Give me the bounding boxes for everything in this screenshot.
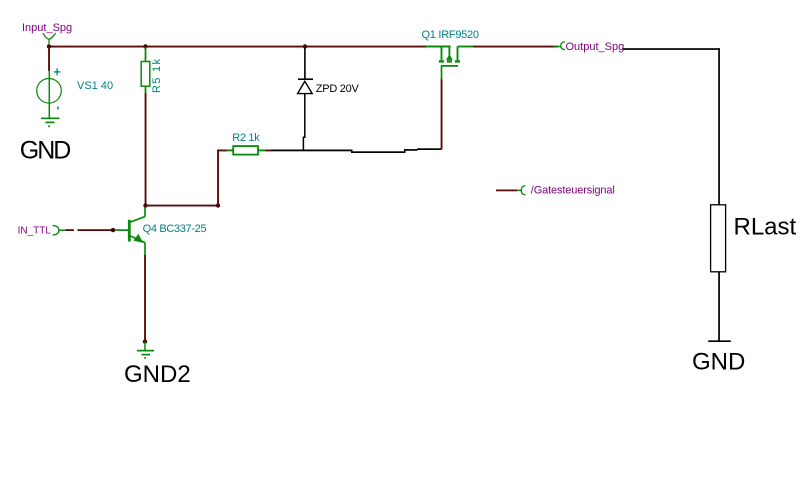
svg-text:IN_TTL: IN_TTL [18,225,52,236]
value label RLast [734,213,797,240]
node Input_Spg label [22,22,72,34]
net connector Input_Spg [43,33,56,44]
value label VS1 40 [77,80,113,92]
reference label Q4 BC337-25 [143,223,207,235]
substrate arrow of Q1 [446,54,453,60]
wire R2 left lead (maroon then green) [217,150,227,152]
node /Gatesteuersignal label [531,185,615,197]
wire R2 corner up (maroon) [217,150,219,207]
wire rail MOSFET drain to Output_Spg (maroon) [473,46,558,48]
ground symbol GND (right, black bar) [708,340,731,342]
svg-text:RLast: RLast [734,213,797,240]
wire R5 bottom lead (green) [145,86,147,93]
svg-text:Output_Spg: Output_Spg [566,41,625,53]
wire gate vertical (maroon) [441,79,443,150]
junction dot R2 corner [216,203,220,207]
plus sign of VS1 [54,68,61,75]
svg-text:Q1 IRF9520: Q1 IRF9520 [422,29,480,41]
transistor Q1 IRF9520 (P-MOSFET) [426,47,473,61]
net connector IN_TTL [53,226,59,236]
wire GND2 stub (green) [144,342,146,351]
svg-text:Input_Spg: Input_Spg [22,22,72,34]
junction dot emitter bottom [143,339,147,343]
svg-text:ZPD 20V: ZPD 20V [316,83,360,95]
node IN_TTL label [18,225,52,236]
wire top rail left (maroon) [48,46,426,48]
value label ZPD 20V [316,83,360,95]
wire R2 to gate jogged segments (black) [351,151,405,153]
svg-text:GND: GND [20,136,72,164]
gate lead of Q1 (green) [441,66,443,80]
junction dot collector node [143,203,147,207]
diode ZPD cathode bar [298,78,313,80]
wire IN_TTL lead (green) [59,229,66,231]
net connector Output_Spg [561,42,565,50]
node Output_Spg label [566,41,625,53]
value label R5 1k (rotated) [151,59,163,94]
wire RLast bottom (black) [718,272,720,341]
ground label GND2 [124,361,191,388]
svg-text:R5 1k: R5 1k [151,59,163,94]
diode ZPD lead top (black) [304,48,306,80]
svg-text:R2 1k: R2 1k [232,132,260,144]
wire IN_TTL to base segment 1 (maroon) [66,229,75,231]
ground symbol GND (left, green) [41,118,60,126]
minus sign of VS1 [57,106,58,109]
junction dot ZPD top [303,44,307,48]
resistor R5 [141,62,150,87]
junction dot base node [111,228,115,232]
wire Output_Spg lead (green) [554,46,561,48]
net connector /Gatesteuersignal [521,186,525,195]
wire /Gatesteuersignal lead (green) [517,189,522,191]
gate bar of Q1 [441,65,458,67]
reference label Q1 IRF9520 [422,29,480,41]
junction dot R5 top [143,44,147,48]
value label R2 1k [232,132,260,144]
net stub /Gatesteuersignal (maroon) [496,190,517,192]
voltage source VS1 [37,71,62,119]
diode ZPD lead bottom (black, with jog) [303,94,304,150]
svg-text:VS1 40: VS1 40 [77,80,113,92]
diode ZPD triangle [298,81,313,93]
wire emitter to GND2 (maroon) [144,255,146,342]
resistor R2 [233,146,258,155]
wire collector node to R2 corner (maroon) [145,205,219,207]
resistor RLast [711,205,726,272]
wire R5 top lead (green) [145,47,147,62]
wire IN_TTL to base segment 2 (maroon) [78,229,114,231]
svg-text:/Gatesteuersignal: /Gatesteuersignal [531,185,615,197]
wire RLast top vertical (black) [718,48,720,205]
channel contact bars of Q1 [439,60,460,62]
wire R5 to collector node (maroon) [145,93,147,206]
svg-text:GND2: GND2 [124,361,191,388]
svg-text:GND: GND [692,348,745,375]
transistor Q4 BC337-25 (NPN) [113,208,145,256]
wire Output to RLast horizontal (black) [623,48,720,50]
ground label GND (right) [692,348,745,375]
ground label GND (left) [20,136,72,164]
ground symbol GND2 (green) [137,351,154,358]
junction node A (Input_Spg / VS1 / rail) [47,44,51,48]
base bar of Q4 [128,220,131,242]
svg-text:Q4 BC337-25: Q4 BC337-25 [143,223,207,235]
wire VS1 top lead (maroon) [48,47,50,72]
emitter arrow of Q4 [134,234,144,243]
wire R2 right lead (green then maroon then black) [258,149,266,151]
